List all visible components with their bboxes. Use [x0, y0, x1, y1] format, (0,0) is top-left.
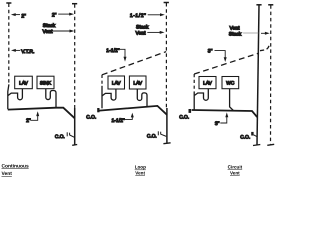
svg-text:Vent: Vent [2, 171, 13, 177]
svg-text:Stack: Stack [136, 24, 149, 30]
svg-text:V.T.R.: V.T.R. [21, 49, 34, 55]
svg-text:Vent: Vent [230, 170, 240, 175]
label 1-1/2in with up arrow to drain [112, 113, 134, 125]
LAV p-trap [195, 89, 209, 101]
svg-text:Stack: Stack [43, 23, 56, 29]
SINK fixture box [37, 76, 54, 89]
LAV1 p-trap [102, 89, 116, 100]
label 2in with left arrow [11, 13, 26, 19]
svg-text:LAV: LAV [133, 80, 143, 86]
SINK p-trap [46, 89, 56, 108]
svg-text:Stack: Stack [229, 31, 242, 37]
label Stack Vent with right arrow [136, 24, 165, 36]
stack vent dashed line [270, 5, 272, 144]
loop stack vent dashed line [165, 3, 167, 108]
LAV fixture box [15, 76, 33, 89]
svg-text:2": 2" [52, 13, 57, 19]
cleanout symbol [251, 132, 257, 137]
svg-text:2": 2" [26, 118, 31, 124]
stack vent dashed line [74, 4, 76, 108]
svg-text:1-1/2": 1-1/2" [130, 13, 146, 19]
stack bottom cap [163, 142, 170, 145]
loop vent riser dashed [101, 75, 103, 86]
vent stack bottom cap [253, 145, 260, 146]
label VTR with left arrow [11, 49, 34, 55]
svg-text:3": 3" [208, 49, 213, 55]
label 2in with up arrow to drain [26, 111, 39, 124]
stack bottom cap [72, 144, 77, 147]
svg-text:LAV: LAV [112, 80, 122, 86]
drain line [8, 108, 75, 119]
svg-text:Vent: Vent [136, 31, 147, 37]
svg-text:C.O.: C.O. [179, 115, 189, 121]
stack vent T-cap right [268, 4, 273, 6]
WC fixture box [222, 77, 239, 89]
drain end cleanout block [189, 109, 192, 113]
svg-text:Vent: Vent [43, 29, 54, 35]
drain end cleanout block [97, 108, 99, 112]
circuit vent diagonal dashed [194, 53, 259, 74]
svg-text:Continuous: Continuous [2, 163, 29, 169]
circuit riser dashed [193, 74, 195, 92]
LAV fixture box [199, 77, 216, 89]
stack vent bottom cap [267, 144, 274, 145]
loop vent diagonal dashed [102, 52, 166, 75]
label 1-1/2in with right arrow [130, 13, 165, 19]
stack vent T-cap [72, 3, 77, 5]
svg-text:2": 2" [21, 13, 26, 19]
loop stack T-cap [164, 2, 169, 4]
drain line [192, 110, 258, 117]
svg-text:C.O.: C.O. [86, 114, 96, 120]
LAV2 p-trap [137, 89, 147, 107]
svg-text:C.O.: C.O. [240, 135, 250, 141]
label 3in with down arrow to diagonal [208, 49, 227, 62]
label Vent Stack with leader and arrow [229, 25, 270, 37]
svg-text:1-1/2": 1-1/2" [112, 118, 125, 124]
svg-text:LAV: LAV [19, 80, 29, 86]
svg-text:Circuit: Circuit [228, 165, 243, 170]
vent stack T-cap [256, 4, 261, 6]
LAV fixture box 1 [108, 76, 125, 89]
label 2in with right arrow to stack vent [52, 13, 74, 19]
label Stack Vent with right arrow [43, 23, 75, 35]
svg-text:1-1/2": 1-1/2" [106, 48, 119, 54]
soil stack solid [166, 108, 168, 143]
svg-text:C.O.: C.O. [147, 134, 157, 140]
LAV p-trap [8, 89, 23, 100]
svg-text:SINK: SINK [40, 80, 52, 86]
vent-to-riser jog [8, 84, 9, 109]
VTR vent terminal T-cap [6, 2, 11, 4]
svg-text:WC: WC [226, 81, 235, 87]
LAV fixture box 2 [129, 76, 146, 89]
VTR dashed vent line [8, 4, 10, 85]
soil stack solid [74, 108, 76, 145]
svg-text:3": 3" [215, 121, 220, 127]
vent elbow to stack vent [260, 44, 269, 51]
drain line [99, 106, 167, 115]
circuit riser solid [193, 92, 195, 110]
vent stack solid line [257, 5, 259, 144]
WC stem with elbow [230, 89, 234, 111]
label 3in with up arrow to drain [215, 112, 228, 127]
label 1-1/2in with down arrow to diagonal [106, 48, 126, 62]
svg-text:Vent: Vent [135, 171, 145, 176]
loop riser solid [101, 86, 103, 109]
cleanout symbol [158, 131, 166, 136]
svg-text:Loop: Loop [135, 165, 146, 170]
svg-text:LAV: LAV [203, 81, 213, 87]
cleanout symbol [67, 132, 74, 137]
svg-text:C.O.: C.O. [55, 134, 65, 140]
